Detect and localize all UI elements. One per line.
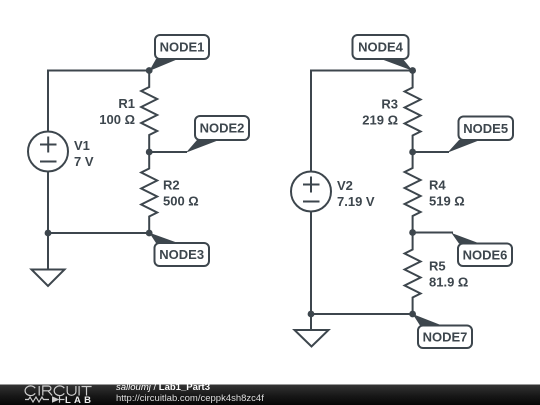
svg-text:7 V: 7 V (74, 154, 94, 169)
svg-text:NODE3: NODE3 (159, 247, 204, 262)
svg-text:NODE5: NODE5 (463, 121, 508, 136)
svg-text:http://circuitlab.com/ceppk4sh: http://circuitlab.com/ceppk4sh8zc4f (116, 393, 264, 404)
svg-text:81.9 Ω: 81.9 Ω (429, 275, 468, 290)
svg-text:219 Ω: 219 Ω (362, 113, 398, 128)
svg-text:7.19 V: 7.19 V (337, 194, 375, 209)
svg-text:R1: R1 (118, 96, 135, 111)
svg-text:519 Ω: 519 Ω (429, 194, 465, 209)
svg-text:V1: V1 (74, 138, 90, 153)
svg-text:NODE1: NODE1 (160, 40, 205, 55)
svg-text:R2: R2 (163, 178, 180, 193)
svg-text:V2: V2 (337, 178, 353, 193)
svg-text:NODE4: NODE4 (358, 40, 404, 55)
svg-text:100 Ω: 100 Ω (99, 112, 135, 127)
svg-text:R3: R3 (381, 97, 398, 112)
svg-text:R5: R5 (429, 259, 446, 274)
svg-text:R4: R4 (429, 178, 446, 193)
svg-text:LAB: LAB (65, 395, 94, 405)
svg-text:NODE2: NODE2 (200, 121, 245, 136)
svg-text:NODE7: NODE7 (423, 330, 468, 345)
svg-text:salloumj / Lab1_Part3: salloumj / Lab1_Part3 (116, 382, 210, 393)
svg-text:NODE6: NODE6 (463, 248, 508, 263)
svg-text:500 Ω: 500 Ω (163, 194, 199, 209)
